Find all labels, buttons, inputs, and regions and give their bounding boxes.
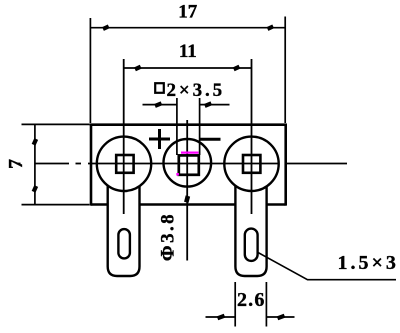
svg-text:7: 7 [5,159,27,169]
svg-text:1.5×3: 1.5×3 [337,252,398,274]
svg-text:2.6: 2.6 [237,289,266,311]
svg-text:17: 17 [178,2,198,23]
svg-text:Φ3.8: Φ3.8 [158,212,179,261]
svg-text:2×3.5: 2×3.5 [167,80,226,101]
svg-text:11: 11 [179,41,197,62]
